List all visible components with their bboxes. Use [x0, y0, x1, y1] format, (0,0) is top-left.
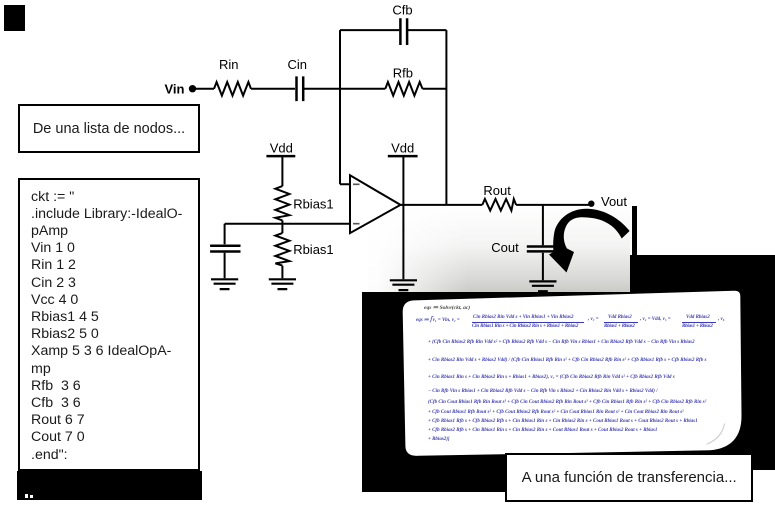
- svg-text:Rbias1: Rbias1: [293, 197, 333, 212]
- svg-text:Rbias1: Rbias1: [293, 242, 333, 257]
- svg-text:Vin: Vin: [165, 81, 185, 96]
- svg-text:Vout: Vout: [601, 194, 627, 209]
- svg-text:Cout: Cout: [491, 240, 519, 255]
- svg-text:Rfb: Rfb: [393, 65, 413, 80]
- svg-text:Vdd: Vdd: [391, 141, 414, 156]
- svg-text:Cfb: Cfb: [392, 3, 412, 18]
- svg-text:Rout: Rout: [483, 183, 511, 198]
- svg-text:Vdd: Vdd: [270, 141, 293, 156]
- svg-text:Cin: Cin: [288, 57, 308, 72]
- svg-text:Rin: Rin: [219, 57, 239, 72]
